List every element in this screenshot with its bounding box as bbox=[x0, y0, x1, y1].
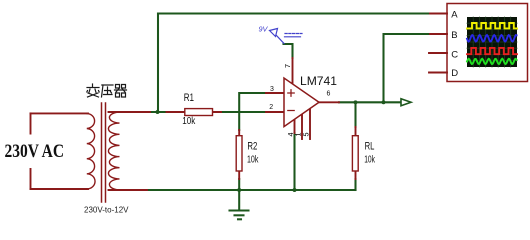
wire output net horizontal bbox=[339, 101, 401, 103]
svg-text:A: A bbox=[451, 10, 458, 21]
op-amp U1 pin2 stub bbox=[266, 111, 284, 113]
oscilloscope box bbox=[447, 4, 528, 82]
output arrow terminal bbox=[401, 99, 411, 106]
resistor RL body bbox=[352, 136, 358, 171]
wire pin3 to R2 top bbox=[239, 93, 266, 130]
wire pin4 to ground rail bbox=[293, 133, 295, 190]
svg-text:C: C bbox=[451, 50, 458, 61]
svg-text:D: D bbox=[451, 68, 458, 79]
oscilloscope input pin B bbox=[430, 33, 447, 35]
svg-text:LM741: LM741 bbox=[300, 74, 337, 88]
svg-text:5: 5 bbox=[302, 133, 311, 137]
transformer secondary bottom pin bbox=[109, 189, 148, 191]
op-amp U1 triangle body bbox=[284, 78, 319, 127]
resistor R2 pins bbox=[238, 130, 240, 179]
resistor R1 body bbox=[185, 109, 213, 116]
wire transformer secondary top to R1 and pin2 bbox=[150, 111, 266, 113]
node junction R2/ground bbox=[237, 188, 241, 192]
resistor RL pins bbox=[355, 127, 357, 179]
svg-text:3: 3 bbox=[270, 86, 274, 93]
svg-text:RL: RL bbox=[365, 140, 375, 152]
op-amp U1 pin6 stub bbox=[319, 101, 339, 103]
transformer secondary top pin bbox=[109, 111, 151, 113]
node junction scope-B/output bbox=[382, 100, 386, 104]
svg-text:10k: 10k bbox=[247, 155, 258, 166]
label 230V AC bbox=[2, 135, 68, 169]
svg-text:B: B bbox=[451, 30, 457, 41]
oscilloscope input pin C bbox=[429, 52, 447, 54]
battery B1 9V symbol bbox=[270, 29, 303, 44]
oscilloscope screen grid bbox=[467, 17, 517, 67]
oscilloscope screen background bbox=[467, 17, 517, 67]
transformer TR1 primary winding bbox=[87, 113, 95, 189]
waveform channel C red square bbox=[467, 48, 517, 54]
waveform channel B blue sine bbox=[467, 35, 517, 42]
svg-text:10k: 10k bbox=[182, 116, 195, 127]
waveform channel D green sine bbox=[467, 59, 517, 64]
resistor R1 pins bbox=[167, 111, 222, 113]
op-amp plus marking bbox=[288, 90, 294, 96]
svg-text:R1: R1 bbox=[184, 92, 194, 104]
op-amp U1 pin4 stub bbox=[294, 120, 296, 134]
transformer TR1 core bbox=[102, 103, 106, 202]
op-amp U1 pin1 stub bbox=[301, 114, 303, 139]
op-amp U1 pin7 stub bbox=[292, 58, 294, 84]
op-amp U1 pin5 stub bbox=[309, 109, 311, 139]
op-amp minus marking bbox=[288, 110, 294, 112]
ground symbol bbox=[230, 190, 249, 219]
oscilloscope input pin D bbox=[429, 72, 447, 74]
node junction pin4/rail bbox=[293, 188, 297, 192]
op-amp U1 pin3 stub bbox=[266, 92, 284, 94]
svg-text:2: 2 bbox=[269, 104, 273, 111]
svg-text:230V-to-12V: 230V-to-12V bbox=[84, 206, 129, 215]
ac source V1 230V loop wires bbox=[31, 113, 89, 189]
wire top rail from left vertical to scope A bbox=[158, 12, 430, 14]
svg-text:7: 7 bbox=[283, 64, 292, 68]
wire RL top to output net bbox=[354, 102, 356, 127]
wire R2 bottom to ground rail bbox=[238, 179, 240, 190]
wire output to scope B bbox=[384, 34, 431, 102]
waveform channel A yellow square bbox=[467, 23, 517, 28]
node junction RL/output bbox=[354, 100, 358, 104]
svg-text:9V: 9V bbox=[259, 24, 269, 33]
resistor R2 body bbox=[236, 136, 242, 171]
label 变压器 (transformer) hand-drawn strokes bbox=[87, 84, 127, 97]
svg-text:10k: 10k bbox=[364, 154, 375, 165]
wire RL bottom to rail bbox=[354, 179, 356, 190]
wire left vertical from top rail to transformer secondary bbox=[157, 14, 159, 113]
wire 9V battery to pin7 bbox=[284, 44, 293, 58]
wire bottom ground rail bbox=[147, 189, 356, 191]
svg-text:230V AC: 230V AC bbox=[5, 141, 65, 162]
svg-text:6: 6 bbox=[327, 91, 331, 98]
svg-text:R2: R2 bbox=[247, 140, 257, 152]
node junction transformer/R1 bbox=[156, 110, 160, 114]
transformer TR1 secondary winding bbox=[108, 112, 119, 190]
oscilloscope input pin A bbox=[430, 13, 447, 15]
